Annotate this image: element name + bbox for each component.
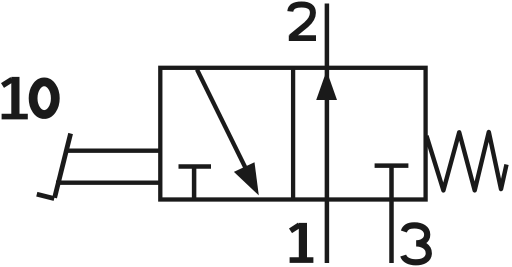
lever actuator rod upper line — [65, 149, 163, 153]
blocked port T left box — [179, 167, 212, 200]
arrowhead diagonal — [234, 162, 259, 195]
label port 2 — [289, 5, 316, 39]
position divider — [291, 68, 295, 200]
label port 3 — [403, 225, 429, 262]
wire port 2/1 vertical line — [325, 4, 330, 264]
label 10 digit 0 — [33, 82, 55, 115]
label 10 digit 1 — [2, 77, 28, 117]
diagonal flow path left box — [197, 70, 250, 178]
valve body outline — [160, 68, 425, 200]
blocked port T right box with port 3 stub — [375, 166, 409, 263]
lever foot — [37, 194, 54, 198]
arrow flow 1 to 2 — [316, 71, 337, 101]
spring return — [427, 132, 507, 190]
lever arm — [55, 134, 71, 198]
lever actuator rod lower line — [56, 181, 162, 185]
label port 1 — [290, 223, 314, 260]
